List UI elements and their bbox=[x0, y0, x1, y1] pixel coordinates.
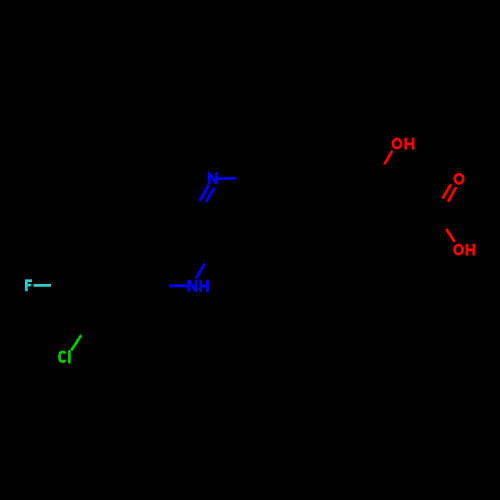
atom label O of phenol OH bbox=[393, 139, 401, 148]
atom label O (carbonyl oxygen) bbox=[455, 174, 464, 183]
wire: bond Cl-aryl half up-right (green) bbox=[71, 335, 81, 350]
wire: double bond C=O line 2 (red) bbox=[448, 187, 456, 202]
atom label C of Cl (chlorine) bbox=[60, 352, 66, 362]
wire: bond C-OH half down-right (red) bbox=[446, 229, 455, 242]
atom label O of carboxyl OH bbox=[455, 245, 463, 254]
wire: bond HO-aryl half down-left (red) bbox=[384, 151, 392, 165]
atom label N1 (quinoline nitrogen) bbox=[209, 172, 216, 184]
atom label H of NH amine bbox=[201, 280, 208, 292]
wire: bond N1-C2 half (blue) bbox=[218, 177, 236, 180]
wire: double bond N1=C8a line 1 (blue) bbox=[200, 185, 209, 201]
atom label H of carboxyl OH bbox=[467, 244, 474, 256]
wire: double bond N1=C8a line 2 (blue) bbox=[206, 188, 214, 202]
atom label F (fluorine) bbox=[26, 279, 32, 291]
wire: bond NH-C4 half up-right (blue) bbox=[196, 264, 205, 279]
atom label N of NH amine bbox=[189, 280, 196, 292]
atom label H of phenol OH bbox=[406, 138, 413, 150]
atom label l of Cl (chlorine) bbox=[68, 350, 71, 363]
wire: bond NH-aryl half left (blue) bbox=[169, 284, 187, 287]
wire: bond F-aryl half (cyan) bbox=[33, 284, 51, 287]
wire: double bond C=O line 1 (red) bbox=[443, 184, 451, 198]
